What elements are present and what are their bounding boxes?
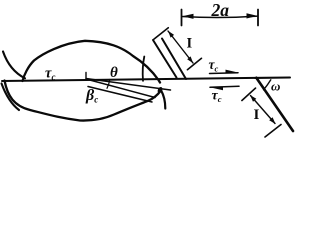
svg-text:I: I [187,36,193,52]
svg-text:I: I [254,107,260,123]
svg-text:ω: ω [271,79,280,94]
svg-text:θ: θ [110,65,118,81]
svg-text:τc: τc [45,66,55,83]
svg-text:βc: βc [85,87,98,105]
svg-text:τc: τc [212,89,222,105]
svg-text:2a: 2a [211,0,230,20]
svg-text:τc: τc [209,57,219,74]
